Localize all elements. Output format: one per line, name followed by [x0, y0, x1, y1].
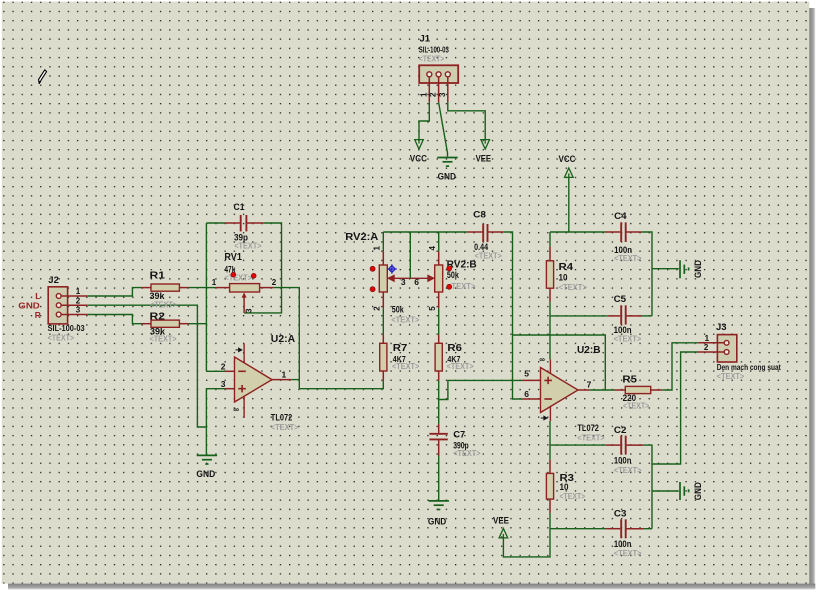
- RV1 wiper pin: [243, 295, 245, 313]
- svg-text:VEE: VEE: [493, 516, 509, 526]
- wire C8 right down to U2:B pin6 with feedback branch: [504, 232, 523, 399]
- J1 pin 2 stub: [438, 76, 440, 102]
- svg-text:2: 2: [76, 296, 81, 305]
- svg-text:6: 6: [414, 277, 419, 287]
- svg-text:J2: J2: [48, 275, 59, 286]
- J2 pin 1 stub: [61, 295, 88, 297]
- capacitor C1: [225, 202, 264, 251]
- svg-text:R1: R1: [150, 271, 166, 282]
- svg-text:6: 6: [524, 389, 529, 399]
- svg-text:50k: 50k: [447, 270, 460, 280]
- wire R3 bottom through C3 row to VEE: [503, 513, 550, 557]
- pencil cursor: [39, 70, 47, 84]
- svg-text:2: 2: [704, 343, 709, 352]
- svg-text:GND: GND: [428, 516, 447, 526]
- wire U2:A output: [291, 379, 299, 381]
- svg-text:R: R: [35, 310, 41, 320]
- J2 pin 2 stub: [61, 304, 88, 306]
- svg-text:5: 5: [428, 306, 437, 311]
- svg-text:RV1: RV1: [224, 252, 242, 263]
- svg-text:<TEXT>: <TEXT>: [614, 253, 641, 263]
- U2:B V+ pin: [549, 359, 551, 373]
- svg-text:<TEXT>: <TEXT>: [224, 273, 252, 283]
- capacitor C5: [550, 294, 642, 343]
- svg-text:<TEXT>: <TEXT>: [271, 422, 299, 432]
- J3 pin 1 stub: [698, 342, 724, 344]
- svg-text:C8: C8: [473, 210, 486, 221]
- svg-text:<TEXT>: <TEXT>: [577, 432, 604, 442]
- wire RV1 pin2 down to U2:A output node: [274, 288, 384, 389]
- svg-text:2: 2: [272, 278, 277, 287]
- svg-text:<TEXT>: <TEXT>: [150, 299, 177, 309]
- svg-text:3: 3: [438, 92, 447, 97]
- wire J2 pin2 to GND net: [87, 305, 206, 427]
- svg-text:R4: R4: [559, 262, 574, 273]
- svg-text:<TEXT>: <TEXT>: [614, 548, 642, 558]
- svg-text:7: 7: [587, 380, 592, 390]
- svg-text:J3: J3: [716, 322, 727, 333]
- svg-text:TL072: TL072: [271, 412, 293, 422]
- top wire net (RV2 tops + C8 left): [383, 231, 467, 233]
- ground symbol (C7): [429, 501, 449, 510]
- J2 pin 3 stub: [61, 314, 88, 316]
- svg-text:VEE: VEE: [476, 154, 492, 164]
- J1 pin 3 stub: [447, 76, 449, 102]
- op-amp U2:A: [221, 334, 299, 432]
- svg-text:C4: C4: [614, 211, 627, 222]
- svg-text:1: 1: [282, 369, 287, 379]
- svg-text:∞: ∞: [539, 355, 545, 364]
- svg-text:C5: C5: [614, 294, 627, 305]
- wire C4 row: [550, 231, 605, 233]
- svg-text:R7: R7: [393, 343, 408, 354]
- svg-text:GND: GND: [438, 172, 457, 182]
- svg-text:<TEXT>: <TEXT>: [614, 334, 642, 344]
- svg-text:<TEXT>: <TEXT>: [623, 400, 649, 410]
- potentiometer RV1: [212, 252, 277, 313]
- capacitor C3: [550, 509, 644, 558]
- wire U2:B V- down to C2 row: [549, 421, 551, 445]
- svg-text:R5: R5: [622, 375, 637, 386]
- resistor R6: [435, 335, 474, 381]
- J3 pin 2 stub: [698, 351, 725, 353]
- wire to rotated GND (upper): [652, 268, 679, 270]
- svg-text:GND: GND: [693, 482, 703, 500]
- svg-text:3: 3: [244, 308, 253, 313]
- svg-text:3: 3: [401, 277, 406, 287]
- resistor R4: [546, 232, 586, 302]
- wire RV1 pin1 from node A: [206, 287, 215, 289]
- wire C4 right to right vertical: [642, 232, 652, 316]
- svg-text:<TEXT>: <TEXT>: [475, 251, 502, 261]
- svg-text:<TEXT>: <TEXT>: [392, 361, 419, 371]
- svg-text:50k: 50k: [392, 305, 405, 315]
- U2:B pin 7 output stub: [578, 389, 590, 391]
- svg-text:2: 2: [373, 306, 382, 311]
- svg-text:VCC: VCC: [559, 154, 576, 164]
- RV2:B wiper arrow: [410, 276, 433, 282]
- power arrow marker: [541, 416, 547, 420]
- svg-text:C7: C7: [453, 430, 465, 441]
- wire C1 right and down to wiper node: [244, 223, 281, 313]
- svg-text:U2:A: U2:A: [271, 334, 295, 345]
- wire C3 right up: [644, 528, 652, 530]
- capacitor C7: [429, 424, 480, 458]
- resistor R2: [141, 312, 189, 344]
- U2:A V+ pin: [243, 343, 245, 363]
- svg-text:<TEXT>: <TEXT>: [150, 334, 177, 344]
- svg-text:<TEXT>: <TEXT>: [234, 241, 261, 251]
- junction marker dots: [447, 266, 452, 271]
- wiper junction vertical: [409, 232, 411, 278]
- power flag VCC (J1): [415, 139, 424, 149]
- ground symbol (below U2:A): [197, 455, 217, 464]
- svg-text:<TEXT>: <TEXT>: [419, 54, 445, 64]
- svg-text:<TEXT>: <TEXT>: [717, 371, 744, 381]
- ground symbol rotated (upper right): [680, 260, 703, 279]
- svg-text:<TEXT>: <TEXT>: [560, 491, 586, 501]
- svg-text:C1: C1: [234, 202, 246, 213]
- U2:A pin 3 stub: [225, 388, 235, 390]
- U2:B pin 6 stub: [522, 398, 540, 400]
- svg-text:∞: ∞: [233, 405, 239, 414]
- wire RV2:A bottom to R7: [382, 308, 384, 334]
- svg-text:1: 1: [76, 287, 81, 296]
- feedback wire to output: [513, 335, 606, 390]
- J1 pin 1 stub: [428, 76, 430, 102]
- plus symbol: [544, 377, 552, 384]
- wire R2 to node A vertical: [189, 323, 207, 325]
- power flag VEE (bottom): [499, 529, 508, 539]
- minus symbol: [238, 370, 246, 372]
- wire J2 pin3 to R2: [87, 315, 141, 324]
- svg-text:3: 3: [221, 379, 226, 389]
- wire U2:A pin2: [206, 370, 224, 372]
- resistor R7: [380, 335, 420, 381]
- svg-text:<TEXT>: <TEXT>: [391, 315, 419, 325]
- junction marker dots: [370, 266, 375, 271]
- resistor R1: [141, 271, 189, 310]
- wire C7 to GND: [438, 456, 440, 501]
- wire R6 bottom to C7 and jog to U2:B pin5: [438, 381, 440, 424]
- capacitor C4: [605, 211, 642, 263]
- potentiometer RV2:A: [345, 232, 467, 325]
- wire J1 pin2 to GND (diagonal): [439, 102, 448, 156]
- wire U2:A pin3 to GND: [206, 389, 224, 455]
- wire C2 right down to C3 right: [644, 445, 652, 529]
- svg-text:R2: R2: [150, 312, 166, 323]
- svg-text:100n: 100n: [614, 455, 632, 465]
- plus symbol: [238, 385, 246, 392]
- svg-text:C3: C3: [614, 509, 627, 520]
- svg-text:J1: J1: [420, 34, 431, 45]
- wire J1 pin3 to VEE: [448, 102, 485, 139]
- wire U2:B output to R5: [590, 389, 614, 391]
- capacitor C8: [467, 210, 504, 261]
- ground symbol rotated (lower right): [680, 482, 703, 500]
- svg-text:R6: R6: [447, 343, 462, 354]
- minus symbol: [544, 398, 552, 400]
- svg-text:<TEXT>: <TEXT>: [559, 282, 587, 292]
- svg-text:GND: GND: [693, 260, 703, 278]
- wire R4 bottom to U2:B V+ with C5 branch: [549, 302, 551, 360]
- svg-text:1: 1: [373, 246, 382, 251]
- svg-text:RV2:A: RV2:A: [345, 232, 378, 243]
- wire J2 pin1 to R1: [87, 288, 141, 296]
- svg-text:<TEXT>: <TEXT>: [614, 465, 642, 475]
- wire J3 pin2 down to C2/C3 node: [652, 352, 698, 464]
- node A vertical wire (C1/R1/RV1 to U2:A pin2): [205, 223, 207, 371]
- power flag VCC (top right): [565, 168, 574, 178]
- connector J3: [698, 322, 781, 381]
- U2:A pin 1 output stub: [272, 379, 291, 381]
- U2:A pin 2 stub: [225, 370, 235, 372]
- junction marker dots: [231, 272, 236, 277]
- wire C5 right up to C4 right: [642, 315, 652, 317]
- U2:B V- pin: [549, 406, 551, 421]
- ground symbol (J1): [437, 158, 457, 167]
- resistor R3: [546, 445, 585, 513]
- svg-text:4: 4: [428, 246, 437, 251]
- power arrow marker: [236, 348, 242, 352]
- wire VCC down to C4 row: [568, 177, 570, 232]
- svg-text:1: 1: [212, 278, 217, 287]
- svg-text:<TEXT>: <TEXT>: [447, 361, 474, 371]
- connector J2: [18, 275, 87, 342]
- U2:A V- pin: [243, 396, 245, 418]
- svg-text:C2: C2: [614, 425, 627, 436]
- connector J1: [419, 34, 458, 103]
- U2:B pin 5 stub: [522, 379, 540, 381]
- svg-text:2: 2: [429, 92, 438, 97]
- svg-text:2: 2: [221, 361, 226, 371]
- svg-text:1: 1: [419, 92, 428, 97]
- wire R1 to node A: [189, 287, 207, 289]
- power flag VEE (J1): [481, 139, 490, 149]
- op-amp U2:B: [522, 345, 604, 442]
- blue origin marker: [387, 264, 397, 274]
- svg-text:<TEXT>: <TEXT>: [453, 448, 480, 458]
- svg-text:3: 3: [76, 306, 81, 315]
- svg-text:1: 1: [705, 334, 710, 343]
- svg-text:GND: GND: [196, 469, 215, 479]
- potentiometer RV2:B: [410, 232, 476, 311]
- wire C1 left: [206, 222, 224, 224]
- capacitor C2: [550, 425, 644, 475]
- svg-text:U2:B: U2:B: [577, 345, 601, 356]
- svg-text:5: 5: [524, 369, 529, 379]
- svg-text:VCC: VCC: [410, 154, 428, 164]
- wire RV2:B bottom to R6: [438, 308, 440, 334]
- svg-text:<TEXT>: <TEXT>: [48, 333, 75, 343]
- wire to rotated GND (lower): [652, 490, 679, 492]
- wire J1 pin1 to VCC: [419, 102, 429, 139]
- wire R5 to J3 pin1: [662, 343, 698, 390]
- RV2:A wiper arrow: [388, 276, 410, 282]
- resistor R5: [615, 375, 663, 411]
